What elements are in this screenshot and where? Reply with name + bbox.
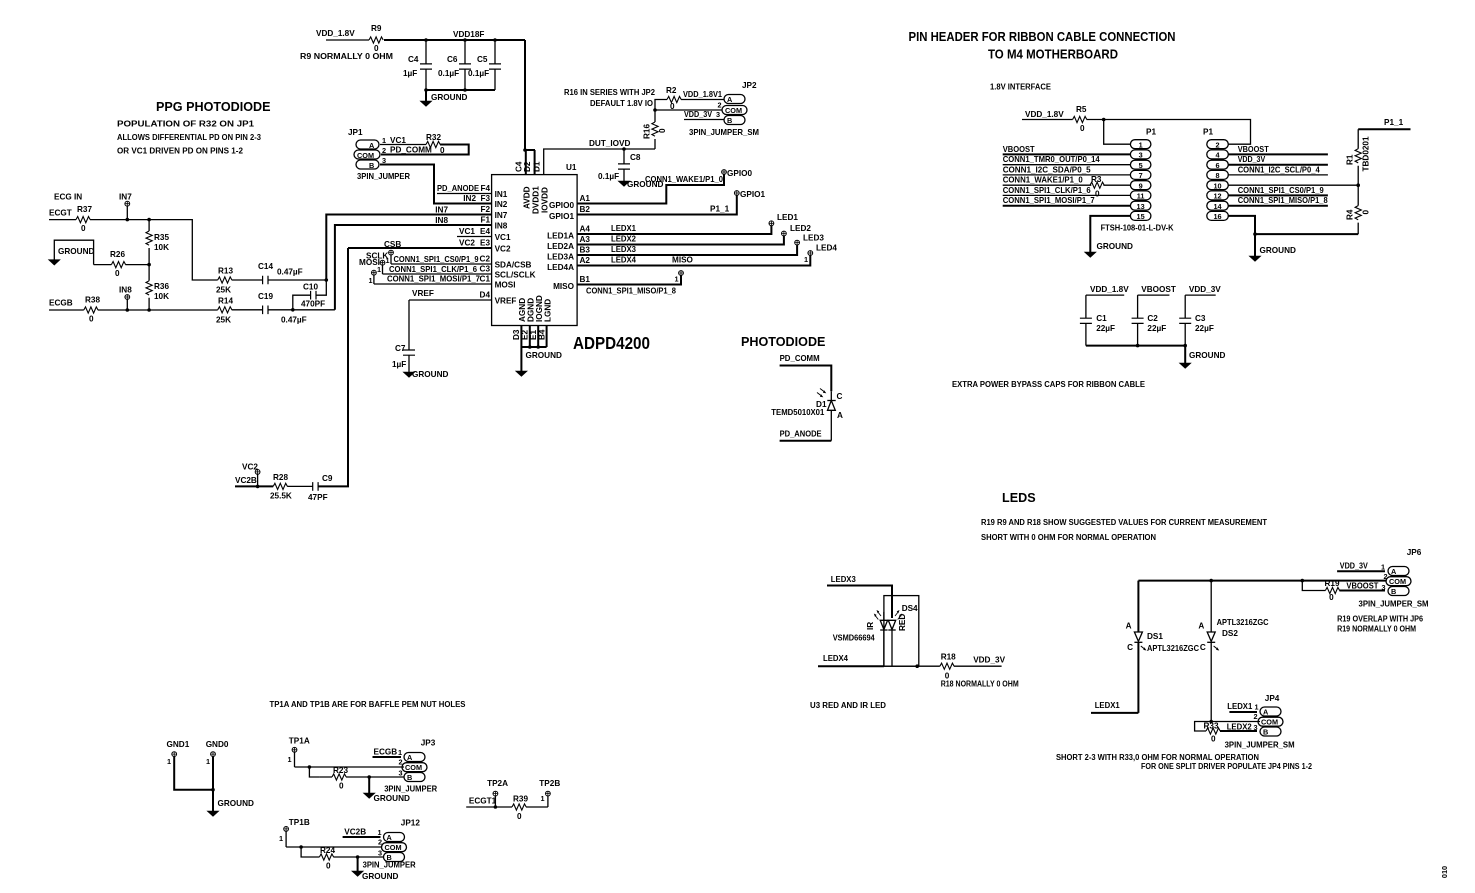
wire to R26	[94, 264, 112, 266]
ground JP3	[363, 777, 410, 803]
svg-text:PHOTODIODE: PHOTODIODE	[741, 335, 825, 349]
node DUT_IOVD at C8	[622, 147, 626, 151]
wire pin5 CONN1_TMR0_OUT/P0_14	[1003, 155, 1131, 165]
testpoint MOSI	[359, 258, 380, 285]
svg-text:GROUND: GROUND	[1097, 242, 1133, 251]
svg-text:R28: R28	[273, 473, 288, 482]
wire cap bottom rail	[426, 89, 495, 91]
svg-text:LGND: LGND	[544, 299, 553, 322]
svg-text:VDD_3V: VDD_3V	[684, 110, 712, 119]
wire R13 to C14	[232, 279, 263, 281]
svg-text:1: 1	[1139, 140, 1143, 149]
svg-text:APTL3216ZGC: APTL3216ZGC	[1217, 618, 1269, 627]
pin C3 SCL/SCLK	[480, 265, 536, 280]
net label LEDX1 JP4	[1227, 702, 1257, 712]
net label VDD_3V bypass	[1185, 285, 1221, 295]
pin F4 IN1	[480, 184, 507, 199]
node at C6	[463, 38, 467, 42]
svg-text:CONN1_I2C_SCL/P0_4: CONN1_I2C_SCL/P0_4	[1238, 165, 1320, 174]
wire ECGT	[49, 219, 76, 221]
svg-text:0.1µF: 0.1µF	[598, 172, 619, 181]
capacitor C19 0.47uF	[258, 292, 307, 325]
svg-text:A: A	[387, 833, 393, 842]
wire pin7 CONN1_I2C_SDA/P0_5	[1003, 165, 1131, 175]
svg-text:CONN1_SPI1_CLK/P1_6: CONN1_SPI1_CLK/P1_6	[1003, 186, 1091, 195]
svg-text:3PIN_JUMPER: 3PIN_JUMPER	[357, 172, 410, 181]
svg-text:1µF: 1µF	[403, 69, 417, 78]
resistor R2	[655, 86, 681, 111]
svg-text:CONN1_SPI1_MOSI/P1_7: CONN1_SPI1_MOSI/P1_7	[1003, 196, 1095, 205]
svg-text:3PIN_JUMPER_SM: 3PIN_JUMPER_SM	[689, 128, 759, 137]
svg-text:1: 1	[288, 755, 292, 764]
svg-text:IN1: IN1	[495, 190, 508, 199]
svg-text:GROUND: GROUND	[218, 799, 254, 808]
wire R19 branch	[1302, 581, 1325, 591]
ground C8	[618, 180, 663, 189]
ground chip	[516, 347, 562, 376]
svg-text:P1: P1	[1146, 128, 1156, 137]
svg-text:SDA/CSB: SDA/CSB	[495, 261, 532, 270]
node DGND	[528, 345, 532, 349]
svg-text:16: 16	[1213, 212, 1221, 221]
testpoint SCLK	[366, 252, 388, 275]
svg-text:CONN1_SPI1_CLK/P1_6: CONN1_SPI1_CLK/P1_6	[389, 265, 477, 274]
resistor R18	[940, 653, 956, 681]
wire VC2B	[235, 485, 273, 487]
svg-text:A3: A3	[580, 235, 591, 244]
svg-text:12: 12	[1213, 192, 1221, 201]
svg-text:3PIN_JUMPER_SM: 3PIN_JUMPER_SM	[1359, 600, 1429, 609]
wire pin12 CONN1_SPI1_CS0/P1_9	[1228, 186, 1328, 196]
svg-text:25K: 25K	[216, 286, 231, 295]
svg-text:AVDD: AVDD	[523, 186, 532, 209]
node ground rail	[1253, 232, 1257, 236]
net label LEDX1	[1091, 701, 1138, 713]
ground GND0	[207, 799, 254, 816]
wire LEDX3	[577, 245, 797, 255]
node TP2A	[494, 805, 498, 809]
svg-text:C3: C3	[480, 265, 491, 274]
svg-text:B: B	[1391, 587, 1396, 596]
wire bypass ground rail	[1086, 345, 1185, 347]
svg-text:JP2: JP2	[742, 81, 757, 90]
svg-text:LED1: LED1	[777, 213, 798, 222]
wire DUT_IOVD	[544, 149, 655, 175]
wire R28 to C9	[287, 485, 313, 487]
svg-text:R32: R32	[426, 133, 441, 142]
svg-text:GROUND: GROUND	[1260, 246, 1296, 255]
svg-text:1: 1	[675, 275, 679, 284]
wire R37 to corner	[90, 220, 218, 280]
capacitor C14 0.47uF	[258, 262, 303, 284]
svg-text:470PF: 470PF	[301, 300, 325, 309]
svg-text:C14: C14	[258, 262, 273, 271]
svg-text:3: 3	[1382, 583, 1386, 592]
svg-text:COM: COM	[385, 843, 402, 852]
node R24 branch	[299, 845, 303, 849]
svg-text:C6: C6	[447, 55, 458, 64]
svg-text:6: 6	[1215, 161, 1219, 170]
testpoint GND0	[206, 740, 229, 811]
svg-text:CONN1_SPI1_CS0/P1_9: CONN1_SPI1_CS0/P1_9	[1238, 186, 1324, 195]
svg-text:3: 3	[716, 110, 720, 119]
svg-text:8: 8	[1215, 171, 1219, 180]
connector P1 left pins 1-15	[1130, 140, 1151, 221]
net label PD_COMM	[780, 354, 832, 391]
wire R14 to C19	[232, 309, 263, 311]
wire pin4 VBOOST	[1228, 145, 1328, 154]
svg-text:LEDX3: LEDX3	[611, 245, 636, 254]
svg-text:R26: R26	[110, 250, 125, 259]
net label LEDX2	[1220, 723, 1257, 732]
resistor R5	[1073, 105, 1087, 133]
svg-text:R1: R1	[1346, 154, 1355, 165]
svg-text:0: 0	[1211, 735, 1216, 744]
svg-text:A: A	[727, 95, 733, 104]
node IOGND	[536, 345, 540, 349]
svg-text:IN7: IN7	[495, 211, 508, 220]
svg-text:LED4A: LED4A	[547, 263, 574, 272]
svg-text:22µF: 22µF	[1147, 324, 1166, 333]
svg-text:JP3: JP3	[421, 739, 436, 748]
svg-text:B3: B3	[580, 246, 591, 255]
svg-text:VDD_3V: VDD_3V	[973, 656, 1005, 665]
svg-text:TP2A: TP2A	[487, 779, 508, 788]
svg-text:B1: B1	[580, 275, 591, 284]
net label VDD_1.8V bypass	[1086, 285, 1129, 295]
svg-text:A: A	[407, 753, 413, 762]
svg-text:B: B	[369, 161, 374, 170]
svg-text:15: 15	[1137, 212, 1145, 221]
net label LEDX3	[827, 575, 892, 618]
svg-text:IN2: IN2	[495, 200, 508, 209]
svg-text:VC1: VC1	[459, 227, 475, 236]
node at C5	[493, 38, 497, 42]
svg-text:VC2: VC2	[495, 245, 511, 254]
ground P1 left	[1085, 242, 1133, 257]
svg-text:R13: R13	[218, 267, 233, 276]
svg-text:0: 0	[1329, 593, 1334, 602]
wire pin14 CONN1_SPI1_MISO/P1_8	[1228, 196, 1328, 206]
svg-text:A: A	[369, 141, 375, 150]
svg-text:VDD_1.8V: VDD_1.8V	[316, 29, 355, 38]
resistor R1 TBD0201	[1346, 129, 1371, 185]
svg-text:OR VC1 DRIVEN PD ON PINS 1-2: OR VC1 DRIVEN PD ON PINS 1-2	[117, 147, 244, 156]
net label VREF wire to D4	[409, 289, 492, 300]
pin B2 GPIO1	[549, 205, 590, 221]
wire R23 branch	[309, 767, 319, 777]
node R1/R4	[1356, 183, 1360, 187]
node IN8/C10	[291, 308, 295, 312]
svg-text:VC2: VC2	[459, 239, 475, 248]
svg-text:LED3: LED3	[803, 234, 824, 243]
svg-text:R37: R37	[77, 205, 92, 214]
resistor R37	[76, 205, 92, 233]
wire VDD_1.8V to R9	[326, 39, 369, 41]
wire R24 to JP12 pin3	[333, 856, 383, 858]
resistor R19	[1325, 579, 1340, 602]
svg-text:VREF: VREF	[495, 297, 517, 306]
svg-text:0: 0	[658, 128, 667, 133]
svg-text:IN7: IN7	[119, 193, 132, 202]
svg-text:GROUND: GROUND	[1189, 351, 1225, 360]
svg-text:PIN HEADER FOR RIBBON CABLE CO: PIN HEADER FOR RIBBON CABLE CONNECTION	[909, 30, 1176, 44]
svg-text:LED3A: LED3A	[547, 253, 574, 262]
svg-text:0: 0	[1080, 124, 1085, 133]
wire TP1B to JP12 pin2	[286, 846, 381, 848]
pin A3 LED2A	[547, 235, 590, 251]
testpoint LED2	[782, 224, 812, 236]
svg-text:P1_1: P1_1	[710, 205, 730, 214]
testpoint TP1B	[279, 818, 310, 847]
LED DS4 RED	[888, 610, 907, 666]
svg-text:R33: R33	[1204, 722, 1219, 731]
svg-text:C4: C4	[514, 161, 523, 172]
svg-text:F3: F3	[480, 194, 490, 203]
svg-text:R39: R39	[513, 795, 528, 804]
wire R39 to TP2B	[526, 806, 548, 808]
testpoint GPIO1	[734, 190, 765, 199]
svg-text:E4: E4	[480, 227, 490, 236]
net label PD_ANODE wire to IN1	[437, 184, 492, 194]
svg-text:7: 7	[1139, 171, 1143, 180]
svg-text:A: A	[837, 411, 843, 420]
svg-text:COM: COM	[357, 151, 374, 160]
svg-text:R38: R38	[85, 296, 100, 305]
svg-text:B: B	[727, 116, 732, 125]
svg-text:0: 0	[1095, 190, 1100, 199]
svg-text:R19 NORMALLY 0 OHM: R19 NORMALLY 0 OHM	[1337, 625, 1416, 634]
svg-text:ECGB: ECGB	[49, 299, 73, 308]
svg-text:COM: COM	[1261, 718, 1278, 727]
svg-text:EXTRA POWER BYPASS CAPS FOR RI: EXTRA POWER BYPASS CAPS FOR RIBBON CABLE	[952, 380, 1145, 389]
svg-text:GROUND: GROUND	[58, 247, 94, 256]
svg-text:C2: C2	[480, 255, 491, 264]
ground JP12	[352, 857, 399, 881]
wire IN8 up to chip	[335, 225, 492, 310]
pin A4 LED1A	[547, 225, 590, 241]
resistor R26	[110, 250, 126, 278]
svg-text:R4: R4	[1346, 209, 1355, 220]
connector P1 right pins 2-16	[1207, 140, 1229, 221]
svg-text:1.8V INTERFACE: 1.8V INTERFACE	[990, 83, 1051, 92]
capacitor C9 47PF	[308, 474, 333, 502]
pin E3 VC2	[480, 239, 511, 254]
svg-text:VC2B: VC2B	[235, 476, 257, 485]
svg-text:TP1A AND TP1B ARE FOR BAFFLE: TP1A AND TP1B ARE FOR BAFFLE PEM NUT HOL…	[270, 700, 466, 709]
svg-text:CONN1_TMR0_OUT/P0_14: CONN1_TMR0_OUT/P0_14	[1003, 155, 1100, 164]
wire VDD18F rail	[384, 39, 525, 41]
pin F1 IN8	[480, 216, 507, 231]
svg-text:P1_1: P1_1	[1384, 118, 1404, 127]
net label VDD_3V JP6	[1337, 562, 1385, 572]
svg-text:A1: A1	[580, 194, 591, 203]
wire IN7 up to chip	[326, 215, 491, 281]
svg-text:VDD_3V: VDD_3V	[1340, 562, 1368, 571]
svg-text:22µF: 22µF	[1195, 324, 1214, 333]
ground P1 right	[1249, 234, 1296, 261]
svg-text:A4: A4	[580, 225, 591, 234]
svg-text:F2: F2	[480, 205, 490, 214]
capacitor C10 470PF	[293, 280, 327, 310]
svg-text:PPG PHOTODIODE: PPG PHOTODIODE	[156, 100, 271, 114]
wire pin8 CONN1_I2C_SCL/P0_4	[1228, 165, 1328, 175]
testpoint IN8	[119, 286, 132, 312]
svg-text:VDD_3V: VDD_3V	[1189, 285, 1221, 294]
svg-text:MISO: MISO	[672, 256, 694, 265]
net label VBOOST bypass	[1138, 285, 1176, 295]
svg-text:VDD_1.8V: VDD_1.8V	[1025, 110, 1064, 119]
wire pin15 to ground	[1090, 216, 1130, 252]
LED DS2 APTL3216ZGC	[1198, 581, 1268, 722]
svg-text:ECG IN: ECG IN	[54, 193, 82, 202]
testpoint VC2	[242, 463, 260, 487]
svg-text:R5: R5	[1076, 105, 1087, 114]
resistor R28 25.5K	[270, 473, 292, 501]
svg-text:R35: R35	[154, 233, 169, 242]
capacitor C5 0.1uF	[468, 40, 501, 90]
svg-text:C1: C1	[1096, 314, 1107, 323]
node R35/R36	[147, 263, 151, 267]
jumper JP4	[1254, 694, 1284, 737]
svg-text:R19: R19	[1325, 579, 1340, 588]
svg-text:C: C	[1200, 643, 1206, 652]
svg-text:0: 0	[89, 315, 94, 324]
wire pin6 VDD_3V	[1228, 155, 1328, 165]
ground bypass	[1179, 346, 1225, 369]
testpoint CSB	[384, 240, 401, 265]
svg-text:VDD_3V: VDD_3V	[1238, 155, 1266, 164]
svg-text:1: 1	[398, 748, 402, 757]
svg-text:IN2: IN2	[463, 194, 476, 203]
svg-text:JP1: JP1	[348, 128, 363, 137]
svg-text:PD_ANODE: PD_ANODE	[780, 430, 822, 439]
wire GPIO1 / P1_1	[577, 196, 737, 215]
net label P1_1	[1358, 118, 1410, 129]
net label PD_ANODE	[780, 430, 832, 441]
svg-text:U3 RED AND IR LED: U3 RED AND IR LED	[810, 701, 886, 710]
svg-text:LED4: LED4	[816, 244, 837, 253]
wire CONN1_SPI1_MOSI/P1_7	[374, 275, 492, 285]
wire C19 to IN8 corner	[268, 309, 335, 311]
svg-text:R19 R9 AND R18 SHOW SUGGESTED: R19 R9 AND R18 SHOW SUGGESTED VALUES FOR…	[981, 518, 1267, 527]
svg-text:R16 IN SERIES WITH JP2: R16 IN SERIES WITH JP2	[564, 88, 656, 97]
svg-text:C: C	[1127, 643, 1133, 652]
net label VC2 wire to E3	[348, 239, 492, 249]
svg-text:VDD18F: VDD18F	[453, 30, 484, 39]
svg-text:IN7: IN7	[435, 206, 448, 215]
svg-text:10K: 10K	[154, 292, 169, 301]
svg-text:C: C	[837, 392, 843, 401]
LED module DS4 body	[884, 596, 919, 667]
svg-text:F4: F4	[480, 184, 490, 193]
svg-text:3PIN_JUMPER_SM: 3PIN_JUMPER_SM	[1225, 741, 1295, 750]
pin F2 IN7	[480, 205, 507, 220]
wire LEDX4	[577, 256, 810, 266]
svg-text:FOR ONE SPLIT DRIVER POPULATE: FOR ONE SPLIT DRIVER POPULATE JP4 PINS 1…	[1141, 762, 1313, 771]
svg-text:C9: C9	[322, 474, 333, 483]
svg-text:LEDX1: LEDX1	[611, 224, 636, 233]
wire GPIO0 / CONN1_WAKE1	[577, 174, 724, 203]
svg-text:GND0: GND0	[206, 740, 229, 749]
wire chip ground bracket	[521, 326, 546, 348]
svg-text:3: 3	[399, 769, 403, 778]
svg-text:0.47µF: 0.47µF	[277, 268, 303, 277]
svg-text:SHORT 2-3 WITH R33,0 OHM FOR N: SHORT 2-3 WITH R33,0 OHM FOR NORMAL OPER…	[1056, 753, 1259, 762]
svg-text:13: 13	[1137, 202, 1145, 211]
svg-text:A: A	[1263, 708, 1269, 717]
svg-text:GPIO1: GPIO1	[549, 212, 574, 221]
svg-text:0: 0	[339, 782, 344, 791]
svg-text:TEMD5010X01: TEMD5010X01	[771, 408, 824, 417]
svg-text:14: 14	[1213, 202, 1222, 211]
svg-text:B: B	[1263, 728, 1268, 737]
svg-text:R18: R18	[941, 653, 956, 662]
svg-text:LEDX1: LEDX1	[1095, 701, 1120, 710]
svg-text:VBOOST: VBOOST	[1346, 582, 1378, 591]
svg-text:GROUND: GROUND	[526, 351, 562, 360]
node R36 bottom	[147, 308, 151, 312]
net label VC2B JP12	[343, 828, 381, 838]
node DS2 top	[1209, 579, 1213, 583]
svg-text:LEDS: LEDS	[1002, 491, 1036, 505]
svg-text:1: 1	[1381, 563, 1385, 572]
ground top caps	[420, 90, 467, 106]
svg-text:DS4: DS4	[902, 604, 918, 613]
resistor R23	[332, 766, 348, 791]
svg-text:CSB: CSB	[384, 240, 401, 249]
svg-text:R14: R14	[218, 297, 233, 306]
svg-text:VC1: VC1	[390, 136, 406, 145]
svg-text:TP2B: TP2B	[539, 779, 560, 788]
svg-text:R9: R9	[371, 24, 382, 33]
pin B3 LED3A	[547, 246, 590, 262]
svg-text:APTL3216ZGC: APTL3216ZGC	[1147, 644, 1199, 653]
capacitor C6 0.1uF	[438, 40, 471, 90]
net label LEDX4	[818, 654, 884, 666]
svg-text:9: 9	[1139, 181, 1143, 190]
node at C4	[424, 38, 428, 42]
svg-text:ALLOWS DIFFERENTIAL PD ON PIN: ALLOWS DIFFERENTIAL PD ON PIN 2-3	[117, 133, 262, 142]
svg-text:DVDD1: DVDD1	[532, 186, 541, 214]
node VC2B	[256, 485, 260, 489]
svg-text:C5: C5	[477, 55, 488, 64]
svg-text:JP4: JP4	[1265, 694, 1280, 703]
svg-text:2: 2	[1215, 140, 1219, 149]
svg-text:LEDX4: LEDX4	[823, 654, 848, 663]
svg-text:A: A	[1391, 567, 1397, 576]
resistor R35 10K vertical	[146, 220, 169, 265]
resistor R4 0	[1346, 185, 1371, 234]
svg-text:3PIN_JUMPER: 3PIN_JUMPER	[363, 861, 416, 870]
svg-text:GROUND: GROUND	[412, 370, 448, 379]
testpoint GPIO0	[722, 169, 753, 178]
wire JP2 pin2	[655, 109, 722, 111]
wire pin10 to R1/R4 node	[1228, 184, 1358, 186]
wire R5 to P1 pins	[1087, 120, 1251, 145]
svg-text:CONN1_SPI1_CS0/P1_9: CONN1_SPI1_CS0/P1_9	[394, 255, 479, 264]
svg-text:TP1A: TP1A	[289, 737, 310, 746]
svg-text:25.5K: 25.5K	[270, 492, 292, 501]
svg-text:R36: R36	[154, 282, 169, 291]
svg-text:SCL/SCLK: SCL/SCLK	[495, 271, 536, 280]
svg-text:C2: C2	[1147, 314, 1158, 323]
svg-text:25K: 25K	[216, 316, 231, 325]
resistor R13 25K	[216, 267, 233, 295]
svg-text:5: 5	[1139, 161, 1143, 170]
svg-text:CONN1_SPI1_MISO/P1_8: CONN1_SPI1_MISO/P1_8	[1238, 196, 1328, 205]
node IN7/C10	[325, 278, 329, 282]
